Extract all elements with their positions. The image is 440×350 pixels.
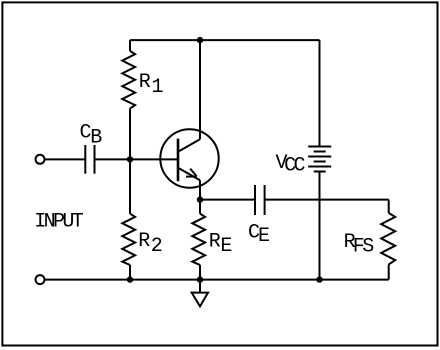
node: R2 bottom junction [127, 276, 133, 282]
resistor RE [192, 214, 205, 265]
wire: RFS to bottom rail [388, 264, 390, 279]
node: emitter junction [197, 196, 203, 202]
wire: emitter to emitter node [199, 180, 201, 199]
wire: RFS top stub [388, 200, 390, 213]
wire: base node to R2 [129, 159, 131, 213]
wire: CB to base node [95, 158, 131, 160]
resistor R1 [122, 51, 135, 109]
node: base junction [127, 156, 133, 162]
node: collector junction on top rail [197, 37, 203, 43]
input terminal (top) [36, 155, 45, 164]
label CE [248, 222, 270, 249]
wire: CE to RFS [265, 199, 389, 201]
svg-text:E: E [220, 235, 232, 258]
capacitor CE [255, 185, 265, 215]
wire: ground stub [199, 280, 201, 293]
wire: emitter node to RE [199, 200, 201, 214]
wire: R2 to bottom rail [129, 265, 131, 280]
wire: RE to bottom rail [199, 265, 201, 280]
label R2 [138, 230, 163, 258]
svg-text:B: B [90, 126, 102, 149]
label VCC [276, 152, 306, 178]
wire: bottom rail [45, 279, 389, 281]
svg-text:FS: FS [353, 236, 374, 259]
svg-text:1: 1 [152, 76, 164, 99]
node: battery bottom junction [316, 276, 322, 282]
capacitor CB [85, 145, 94, 174]
input terminal (bottom) [36, 275, 45, 284]
ground [192, 293, 208, 307]
wire: top rail to battery [319, 40, 321, 146]
svg-text:INPUT: INPUT [34, 211, 84, 234]
wire: input to CB [45, 158, 86, 160]
label RE [209, 231, 233, 259]
wire: base node to transistor base [130, 158, 178, 160]
svg-text:2: 2 [151, 235, 163, 258]
label CB [80, 121, 103, 149]
transistor (NPN) [160, 129, 218, 187]
resistor R2 [122, 214, 135, 265]
node: RE bottom junction [197, 276, 203, 282]
wire: battery to bottom rail [319, 172, 321, 280]
wire: R1 bottom to base node [129, 109, 131, 160]
svg-text:R: R [209, 231, 221, 254]
svg-text:R: R [139, 71, 151, 94]
wire: emitter node to CE [200, 199, 255, 201]
svg-text:R: R [138, 230, 150, 253]
wire: top supply rail [130, 39, 320, 41]
label RFS [344, 231, 375, 259]
wire: collector to top rail [199, 40, 201, 139]
svg-text:E: E [258, 225, 270, 248]
battery VCC [308, 147, 331, 172]
svg-text:CC: CC [284, 155, 305, 178]
label R1 [139, 71, 164, 99]
resistor RFS [381, 213, 395, 264]
label INPUT [34, 211, 84, 234]
wire: R1 top stub [129, 40, 131, 51]
